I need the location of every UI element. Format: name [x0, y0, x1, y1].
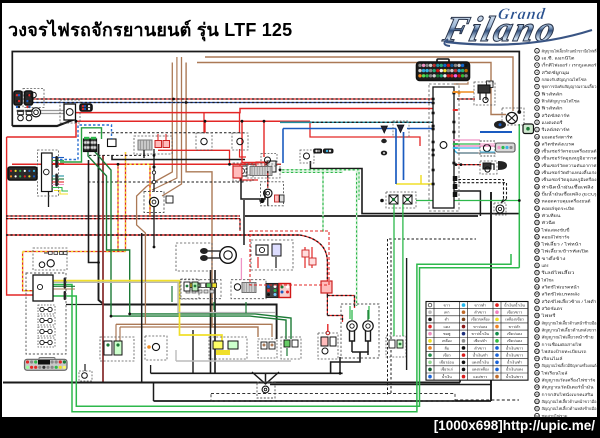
svg-text:หัวฉีด: หัวฉีด — [542, 220, 557, 225]
svg-text:เซ็นเซอร์วัดความดันอากาศ: เซ็นเซอร์วัดความดันอากาศ — [542, 162, 598, 168]
svg-text:15: 15 — [535, 149, 539, 153]
svg-text:น้ำเงิน/ขาว: น้ำเงิน/ขาว — [506, 374, 523, 379]
svg-text:แตร: แตร — [542, 263, 549, 268]
svg-text:แดง/ขาว: แดง/ขาว — [473, 375, 487, 379]
svg-text:ขาว: ขาว — [444, 303, 451, 307]
svg-text:42: 42 — [535, 342, 539, 346]
svg-text:ปั้มน้ำมันเชื้อเพลิง (ECU): ปั้มน้ำมันเชื้อเพลิง (ECU) — [542, 190, 598, 197]
svg-text:สัญญาณไฟเลี้ยวด้านหน้าขวามือ: สัญญาณไฟเลี้ยวด้านหน้าขวามือ — [542, 397, 597, 404]
svg-text:สวิตช์ไฟเบรคหน้า: สวิตช์ไฟเบรคหน้า — [542, 285, 580, 290]
svg-text:หัวฉีดน้ำมันเชื้อเพลิง: หัวฉีดน้ำมันเชื้อเพลิง — [542, 182, 594, 189]
svg-text:16: 16 — [535, 156, 539, 160]
svg-text:50: 50 — [535, 400, 539, 404]
svg-text:21: 21 — [535, 192, 539, 196]
svg-text:แบตเตอรี่: แบตเตอรี่ — [542, 120, 563, 125]
svg-text:สัญญาณไฟเลี้ยวด้านหน้าขวามือไฟ: สัญญาณไฟเลี้ยวด้านหน้าขวามือไฟหรี่ — [542, 46, 597, 53]
svg-text:น้ำเงิน/ดำ: น้ำเงิน/ดำ — [473, 352, 488, 357]
svg-text:เร็กติไฟเออร์ / เรกกูเลเตอร์: เร็กติไฟเออร์ / เรกกูเลเตอร์ — [542, 62, 597, 69]
svg-text:31: 31 — [535, 264, 539, 268]
svg-text:น้ำเงิน: น้ำเงิน — [442, 374, 452, 379]
svg-text:หลอดควบคุมเครื่องยนต์: หลอดควบคุมเครื่องยนต์ — [542, 199, 592, 205]
svg-text:ไฟเลี้ยว / ไฟหน้า: ไฟเลี้ยว / ไฟหน้า — [540, 240, 581, 247]
svg-text:เขียวแก่: เขียวแก่ — [441, 367, 453, 372]
svg-text:ขาว/ดำ: ขาว/ดำ — [474, 303, 486, 307]
svg-text:สวิตช์ไฟเบรคหลัง: สวิตช์ไฟเบรคหลัง — [542, 292, 580, 297]
svg-text:สัญญาณไฟเลี้ยวด้านหน้าซ้ายมือ: สัญญาณไฟเลี้ยวด้านหน้าซ้ายมือ — [542, 318, 597, 325]
svg-text:10: 10 — [535, 113, 539, 117]
svg-text:สวิตช์สตาร์ท: สวิตช์สตาร์ท — [542, 113, 571, 118]
svg-text:1: 1 — [536, 49, 538, 53]
svg-text:2: 2 — [536, 56, 538, 60]
svg-text:40: 40 — [535, 328, 539, 332]
svg-text:24: 24 — [535, 214, 539, 218]
svg-text:แดง: แดง — [444, 325, 451, 329]
svg-text:33: 33 — [535, 278, 539, 282]
svg-text:11: 11 — [535, 120, 538, 124]
svg-text:สวิตช์แตร: สวิตช์แตร — [542, 306, 563, 311]
svg-text:35: 35 — [535, 292, 539, 296]
svg-text:48: 48 — [535, 385, 539, 389]
svg-text:เอ.ซี. แมกนีโต: เอ.ซี. แมกนีโต — [542, 56, 576, 61]
svg-text:ส้ม: ส้ม — [444, 345, 449, 350]
svg-text:ขาตั้งข้าง: ขาตั้งข้าง — [542, 254, 566, 261]
svg-text:47: 47 — [535, 378, 539, 382]
svg-text:คอยล์ไฟชาร์จ: คอยล์ไฟชาร์จ — [542, 234, 570, 239]
svg-text:ไฟส่องป้ายทะเบียนรถ: ไฟส่องป้ายทะเบียนรถ — [540, 349, 587, 354]
svg-text:7: 7 — [536, 92, 538, 96]
svg-text:30: 30 — [535, 256, 539, 260]
svg-text:ดำ/ขาว: ดำ/ขาว — [474, 346, 486, 350]
svg-text:เขียว: เขียว — [443, 352, 451, 357]
svg-text:27: 27 — [535, 235, 539, 239]
svg-text:23: 23 — [535, 206, 539, 210]
svg-text:ฟิวส์หลัก: ฟิวส์หลัก — [541, 91, 564, 96]
svg-text:เซ็นเซอร์วัดตำแหน่งลิ้นเร่ง: เซ็นเซอร์วัดตำแหน่งลิ้นเร่ง — [542, 168, 597, 175]
svg-text:ไฟเลี้ยวเข้ารหัสเปิด: ไฟเลี้ยวเข้ารหัสเปิด — [540, 247, 589, 254]
svg-text:เซ็นเซอร์วัดอุณหภูมิเครื่อง: เซ็นเซอร์วัดอุณหภูมิเครื่อง — [542, 176, 597, 183]
svg-text:26: 26 — [535, 228, 539, 232]
svg-text:18: 18 — [535, 171, 539, 175]
svg-text:เรือนไมล์: เรือนไมล์ — [542, 356, 564, 361]
svg-text:เขียว/แดง: เขียว/แดง — [507, 331, 522, 336]
svg-text:แดง/น้ำเงิน: แดง/น้ำเงิน — [472, 360, 490, 365]
svg-text:ชมพู: ชมพู — [443, 332, 451, 336]
svg-text:เขียว/แดง: เขียว/แดง — [507, 338, 522, 343]
svg-text:กล่องรับสัญญาณไฟโซล: กล่องรับสัญญาณไฟโซล — [542, 77, 588, 82]
svg-text:38: 38 — [535, 314, 539, 318]
svg-text:17: 17 — [535, 163, 539, 167]
svg-text:เซ็นเซอร์วัดอุณหภูมิอากาศ: เซ็นเซอร์วัดอุณหภูมิอากาศ — [542, 155, 598, 162]
svg-text:3: 3 — [536, 63, 538, 67]
svg-text:เขียว/เหลือง: เขียว/เหลือง — [471, 317, 490, 322]
svg-text:ฟิวส์สัญญาณไฟโซล: ฟิวส์สัญญาณไฟโซล — [541, 99, 580, 104]
svg-text:28: 28 — [535, 242, 539, 246]
svg-text:เซ็นเซอร์วัดรอบเครื่องยนต์: เซ็นเซอร์วัดรอบเครื่องยนต์ — [542, 148, 598, 154]
svg-text:น้ำเงิน/น้ำเงิน: น้ำเงิน/น้ำเงิน — [504, 302, 525, 307]
svg-text:ขาว/ดำ: ขาว/ดำ — [509, 325, 521, 329]
svg-text:34: 34 — [535, 285, 539, 289]
svg-text:4: 4 — [536, 70, 538, 74]
svg-text:น้ำเงิน/แดง: น้ำเงิน/แดง — [506, 367, 524, 372]
svg-text:ไฟแสดงขับขี่: ไฟแสดงขับขี่ — [540, 227, 570, 232]
svg-text:ขาว/แดง: ขาว/แดง — [473, 325, 487, 329]
svg-text:37: 37 — [535, 307, 539, 311]
svg-text:เขียวอ่อน: เขียวอ่อน — [439, 360, 454, 365]
svg-text:ชุดการบังคับสัญญาณรวมเลี้ยว: ชุดการบังคับสัญญาณรวมเลี้ยว — [542, 82, 597, 90]
svg-text:29: 29 — [535, 249, 539, 253]
svg-text:น้ำเงิน/ขาว: น้ำเงิน/ขาว — [506, 352, 523, 357]
svg-text:มอเตอร์สตาร์ท: มอเตอร์สตาร์ท — [542, 134, 574, 139]
svg-text:20: 20 — [535, 185, 539, 189]
svg-text:สัญญาณไฟเลี้ยวด้านหลังขวา: สัญญาณไฟเลี้ยวด้านหลังขวา — [542, 325, 597, 332]
svg-text:สัญญาณไฟเลี้ยวด้านหลังซ้ายมือ: สัญญาณไฟเลี้ยวด้านหลังซ้ายมือ — [542, 404, 597, 411]
svg-text:น้ำเงิน/ดำ: น้ำเงิน/ดำ — [507, 360, 522, 365]
svg-text:36: 36 — [535, 299, 539, 303]
svg-text:สวิตช์ผูกมุม: สวิตช์ผูกมุม — [542, 70, 571, 76]
svg-text:สัญญาณไฟเลี้ยวหน้าซ้าย: สัญญาณไฟเลี้ยวหน้าซ้าย — [542, 333, 594, 340]
svg-text:22: 22 — [535, 199, 539, 203]
svg-text:น้ำเงิน/ขาว: น้ำเงิน/ขาว — [506, 345, 523, 350]
svg-text:เขียว/ขาว: เขียว/ขาว — [507, 310, 522, 315]
svg-text:43: 43 — [535, 349, 539, 353]
svg-text:45: 45 — [535, 364, 539, 368]
svg-text:สัญญาณวัดมิเตอร์น้ำมัน: สัญญาณวัดมิเตอร์น้ำมัน — [542, 383, 594, 390]
svg-text:25: 25 — [535, 221, 539, 225]
svg-text:51: 51 — [535, 407, 539, 411]
svg-text:ไฟหรี่: ไฟหรี่ — [540, 313, 555, 318]
svg-text:12: 12 — [535, 128, 539, 132]
svg-text:ไฟเรือนไมล์: ไฟเรือนไมล์ — [540, 370, 568, 375]
svg-text:ดำ: ดำ — [445, 318, 449, 322]
svg-text:หัวเทียน: หัวเทียน — [542, 213, 561, 218]
svg-text:49: 49 — [535, 392, 539, 396]
svg-text:รีเลย์ไฟเลี้ยว: รีเลย์ไฟเลี้ยว — [540, 268, 574, 275]
svg-text:การเชื่อมต่อสายไฟ: การเชื่อมต่อสายไฟ — [542, 342, 582, 347]
svg-text:6: 6 — [536, 85, 538, 89]
svg-text:ขาว/น้ำเงิน: ขาว/น้ำเงิน — [472, 331, 490, 336]
svg-text:13: 13 — [535, 135, 539, 139]
svg-text:46: 46 — [535, 371, 539, 375]
svg-text:เหลือง: เหลือง — [442, 338, 452, 343]
svg-text:ไฟโซล: ไฟโซล — [540, 277, 554, 282]
svg-text:44: 44 — [535, 357, 539, 361]
svg-text:เขียว/ดำ: เขียว/ดำ — [474, 338, 487, 343]
svg-text:5: 5 — [536, 78, 538, 82]
svg-text:แดง/เหลือง: แดง/เหลือง — [472, 367, 489, 372]
svg-text:สัญญาณวัดเครื่องไฟชาร์จ: สัญญาณวัดเครื่องไฟชาร์จ — [542, 378, 596, 383]
svg-text:41: 41 — [535, 335, 539, 339]
svg-text:19: 19 — [535, 178, 539, 182]
svg-text:39: 39 — [535, 321, 539, 325]
svg-text:เหลือง/เขียว: เหลือง/เขียว — [505, 317, 524, 322]
svg-text:9: 9 — [536, 106, 538, 110]
svg-text:การกลับไฟนั่งเบรคเสริม: การกลับไฟนั่งเบรคเสริม — [542, 392, 595, 397]
svg-text:คอยล์จุดระเบิด: คอยล์จุดระเบิด — [542, 206, 576, 212]
svg-text:สวิตช์หลังเบรค: สวิตช์หลังเบรค — [542, 141, 576, 146]
svg-text:สัญญาณไฟเลี้ยวมีปัญหาเครื่องยน: สัญญาณไฟเลี้ยวมีปัญหาเครื่องยนต์ — [542, 361, 597, 368]
svg-text:8: 8 — [536, 99, 538, 103]
svg-text:32: 32 — [535, 271, 539, 275]
svg-text:เทา: เทา — [444, 311, 450, 315]
svg-text:ฟิวส์หลัก: ฟิวส์หลัก — [541, 106, 564, 111]
svg-text:ดำ/ขาว: ดำ/ขาว — [474, 311, 486, 315]
svg-text:สวิตช์ไฟเลี้ยวซ้าย / ไฟต่ำ: สวิตช์ไฟเลี้ยวซ้าย / ไฟต่ำ — [542, 297, 597, 304]
svg-text:14: 14 — [535, 142, 539, 146]
svg-text:รีเลย์สตาร์ท: รีเลย์สตาร์ท — [540, 127, 570, 132]
